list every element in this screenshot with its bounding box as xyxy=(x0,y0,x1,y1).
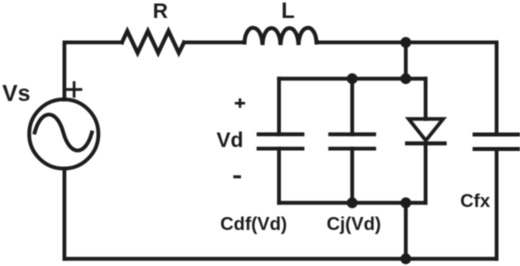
svg-text:Cdf(Vd): Cdf(Vd) xyxy=(220,213,287,234)
resistor R xyxy=(122,31,184,53)
svg-text:L: L xyxy=(281,0,294,23)
plus polarity mark at source xyxy=(67,83,81,97)
wire: left vertical + top-left segment from source top to resistor xyxy=(64,42,122,99)
inductor L xyxy=(245,28,317,45)
svg-text:Vd: Vd xyxy=(217,129,244,152)
diode D triangle xyxy=(409,119,444,141)
wire: bottom rail xyxy=(64,257,496,261)
junction dot on bottom wire xyxy=(400,253,411,264)
wire: left vertical lower (source bottom to bottom rail) xyxy=(63,169,67,259)
wire: inductor to top-right corner xyxy=(317,41,497,45)
wire: right vertical upper (to Cfx) xyxy=(495,42,499,134)
capacitor Cj(Vd) plates xyxy=(330,134,374,148)
diode D cathode bar xyxy=(407,141,445,145)
capacitor Cfx plates xyxy=(475,135,519,150)
wire: resistor to inductor xyxy=(184,41,245,45)
wire: inner network top rail xyxy=(279,77,426,81)
voltage source sine wave xyxy=(35,115,92,151)
plus mark of Vd xyxy=(235,98,245,107)
capacitor Cdf(Vd) plates xyxy=(259,134,303,148)
wire: inner network bottom rail xyxy=(279,201,426,205)
junction dot bottom rail at vertical xyxy=(400,197,411,208)
wire: junction vertical from top wire to inner top rail xyxy=(404,42,408,78)
minus mark of Vd xyxy=(233,175,241,178)
capacitor Cj(Vd) leads xyxy=(350,79,354,203)
voltage source Vs circle xyxy=(29,99,98,168)
svg-text:Vs: Vs xyxy=(2,80,30,106)
wire: right vertical lower (Cfx to bottom) xyxy=(495,149,499,259)
junction dot bottom rail at Cj xyxy=(347,197,358,208)
svg-text:Cfx: Cfx xyxy=(460,190,491,211)
junction dot on top wire xyxy=(400,37,411,48)
wire: junction vertical from inner bottom rail to bottom wire xyxy=(404,203,408,259)
svg-text:R: R xyxy=(153,0,168,23)
capacitor Cdf(Vd) leads xyxy=(277,79,281,203)
diode D leads xyxy=(424,79,428,203)
svg-text:Cj(Vd): Cj(Vd) xyxy=(327,213,381,234)
junction dot top rail at Cj xyxy=(347,73,358,84)
junction dot top rail at vertical xyxy=(400,73,411,84)
